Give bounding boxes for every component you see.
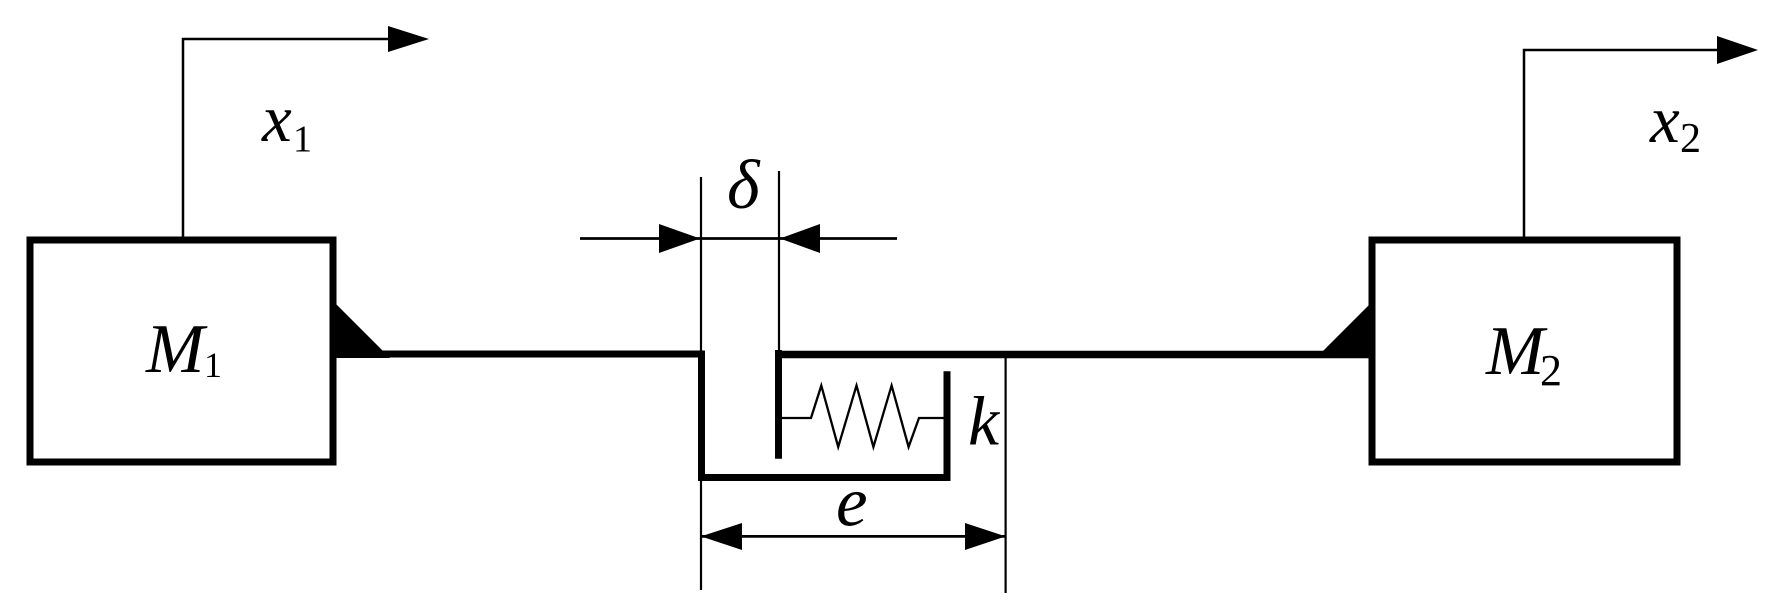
svg-text:2: 2 (1540, 346, 1562, 395)
svg-text:x: x (261, 82, 292, 156)
label x1 (261, 82, 312, 161)
svg-text:e: e (836, 464, 868, 542)
hanging bar on M2 rod (775, 350, 782, 459)
label M1 (145, 311, 222, 388)
label delta (727, 147, 761, 224)
label x2 (1649, 83, 1701, 162)
label e (836, 464, 868, 542)
mass M2 (1372, 240, 1677, 462)
label M2 (1485, 313, 1562, 395)
svg-text:k: k (968, 384, 1001, 461)
svg-text:2: 2 (1680, 116, 1701, 162)
dimension line e (701, 523, 1006, 550)
weld fillet on M1 rod (336, 304, 390, 358)
svg-text:δ: δ (727, 147, 761, 224)
svg-text:M: M (145, 311, 208, 388)
rod from M1 with U-channel (left wall, bottom, right wall) (334, 354, 947, 478)
dimension line delta (580, 224, 897, 253)
extension line right of e (x=1005.6) (1004, 351, 1006, 593)
svg-text:M: M (1485, 313, 1548, 390)
extension line at left wall (x=701) (700, 177, 702, 590)
rod from M2 (775, 351, 1372, 359)
label k (968, 384, 1001, 461)
displacement arrow x2 (1524, 36, 1758, 237)
mass M1 (30, 240, 333, 462)
svg-text:1: 1 (293, 119, 312, 161)
svg-text:x: x (1649, 83, 1680, 157)
displacement arrow x1 (183, 26, 429, 237)
weld fillet on M2 rod (1316, 304, 1370, 358)
extension line at bar (x=779) (778, 171, 780, 352)
spring k (782, 386, 944, 447)
svg-text:1: 1 (204, 345, 222, 385)
